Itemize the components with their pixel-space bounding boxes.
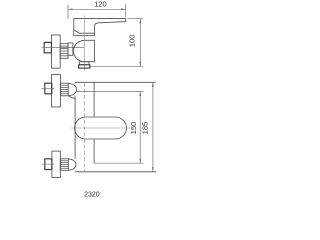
svg-text:185: 185 — [140, 122, 149, 135]
dim 150 extension line bottom — [94, 162, 143, 164]
dim 120 arrow left — [68, 9, 73, 11]
dim 100 arrow bottom — [140, 62, 142, 67]
outlet neck (top view) — [80, 62, 89, 65]
dim 150 line — [139, 91, 141, 163]
front view: thread ridges upper — [60, 85, 68, 93]
dim 150 arrow bottom — [139, 159, 141, 164]
front view: body bottom edge + 185 ext — [75, 171, 156, 173]
pipe centerline (top view) — [42, 46, 85, 48]
front view: body right edge — [93, 82, 95, 163]
front view: union nut lower — [45, 159, 52, 170]
svg-text:100: 100 — [128, 35, 137, 48]
front view: upper union foot — [68, 96, 75, 99]
vertical centerline (top view) — [83, 15, 85, 70]
outlet nut (top view) — [79, 65, 90, 68]
front view: thread ridges lower — [60, 161, 68, 169]
front view: dome lower union — [68, 159, 76, 170]
thread ridges (top view) — [60, 46, 68, 56]
cap inner chamfer line — [74, 30, 95, 33]
dim 185 line — [152, 82, 154, 172]
front view: wall flange upper — [52, 75, 61, 107]
thread (top view) — [60, 44, 68, 59]
front view: dome upper union — [68, 83, 76, 95]
dim 185 arrow top — [152, 82, 154, 87]
dim 100 arrow top — [140, 19, 142, 24]
union body (top view) — [68, 43, 73, 55]
union nut (top view) — [44, 42, 51, 52]
mixer body (top view) — [74, 40, 95, 61]
front view: union nut upper — [45, 83, 52, 94]
lever handle (top view) — [74, 19, 126, 27]
wall flange (top view) — [51, 35, 60, 68]
dim 100 line — [139, 19, 141, 67]
front view: centerline lower union — [42, 163, 55, 165]
dim 150 arrow top — [139, 91, 141, 96]
front view: body left edge — [74, 82, 76, 159]
dim 120 extension line left — [67, 5, 69, 19]
dim 120 extension line right — [125, 4, 127, 18]
cartridge cap (top view) — [74, 19, 95, 36]
front view: centerline upper union — [42, 88, 55, 90]
dim 185 arrow bottom — [152, 167, 154, 172]
dim 100 extension line top — [128, 18, 143, 20]
front view: body top edge + 185 ext — [75, 81, 156, 83]
dim 150 extension line top — [77, 90, 144, 92]
svg-text:120: 120 — [94, 0, 107, 9]
svg-text:2320: 2320 — [84, 192, 100, 199]
front view: wall flange lower — [52, 151, 60, 177]
dim 100 extension line bottom — [91, 65, 143, 67]
front view: thread lower — [60, 159, 68, 171]
front view: thread upper — [60, 83, 68, 96]
front view: lever capsule — [75, 117, 127, 139]
svg-text:150: 150 — [129, 122, 138, 135]
front view: dashed vertical centerline — [83, 83, 85, 172]
dim 120 line — [68, 8, 126, 10]
front view: capsule axis centerline — [71, 127, 130, 129]
dim 120 arrow right — [121, 9, 126, 11]
